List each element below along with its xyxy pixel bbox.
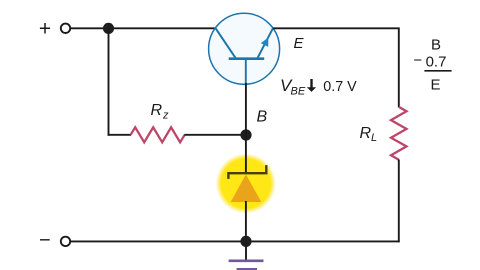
svg-text:R: R [360,125,372,142]
wire top-right horizontal [273,28,399,107]
wire right vertical lower [398,160,400,243]
zener triangle (anode) [231,174,262,202]
svg-text:E: E [294,35,305,52]
svg-text:z: z [162,110,169,122]
wire bottom horizontal [70,240,399,242]
svg-text:B: B [431,37,441,54]
ground bar 1 [229,259,264,262]
wire top-left horizontal [70,27,215,29]
resistor Rz zigzag [131,127,185,142]
wire transistor base lead down to node B [245,83,247,135]
ground bar 2 [237,268,257,270]
wire zener down to bottom junction [245,201,247,242]
terminal bottom-left (open circle) [61,237,70,246]
svg-text:R: R [151,102,163,119]
wire junction to ground [245,241,247,259]
wire Rz right lead [184,134,246,136]
zener diode glow [215,153,277,215]
svg-text:E: E [430,76,440,93]
transistor Q1 [209,13,280,84]
svg-text:L: L [371,132,377,144]
svg-text:−: − [39,230,51,252]
VBE annotation [280,76,357,98]
wire Rz left lead [108,134,132,136]
wire node B down to zener [245,135,247,173]
svg-text:0.7: 0.7 [426,53,447,70]
B minus 0.7 over E annotation [413,37,451,94]
svg-text:+: + [39,17,51,40]
bottom junction dot [240,236,251,247]
resistor RL zigzag [391,107,407,160]
node B junction dot [240,129,251,140]
junction dot top [103,23,114,34]
wire left vertical [108,28,110,135]
svg-text:B: B [257,108,268,125]
svg-text:BE: BE [291,86,306,98]
terminal top-left (open circle) [61,24,70,33]
svg-text:−: − [413,52,422,69]
svg-text:0.7 V: 0.7 V [323,79,357,95]
zener cathode bar with bent tails [228,165,266,179]
